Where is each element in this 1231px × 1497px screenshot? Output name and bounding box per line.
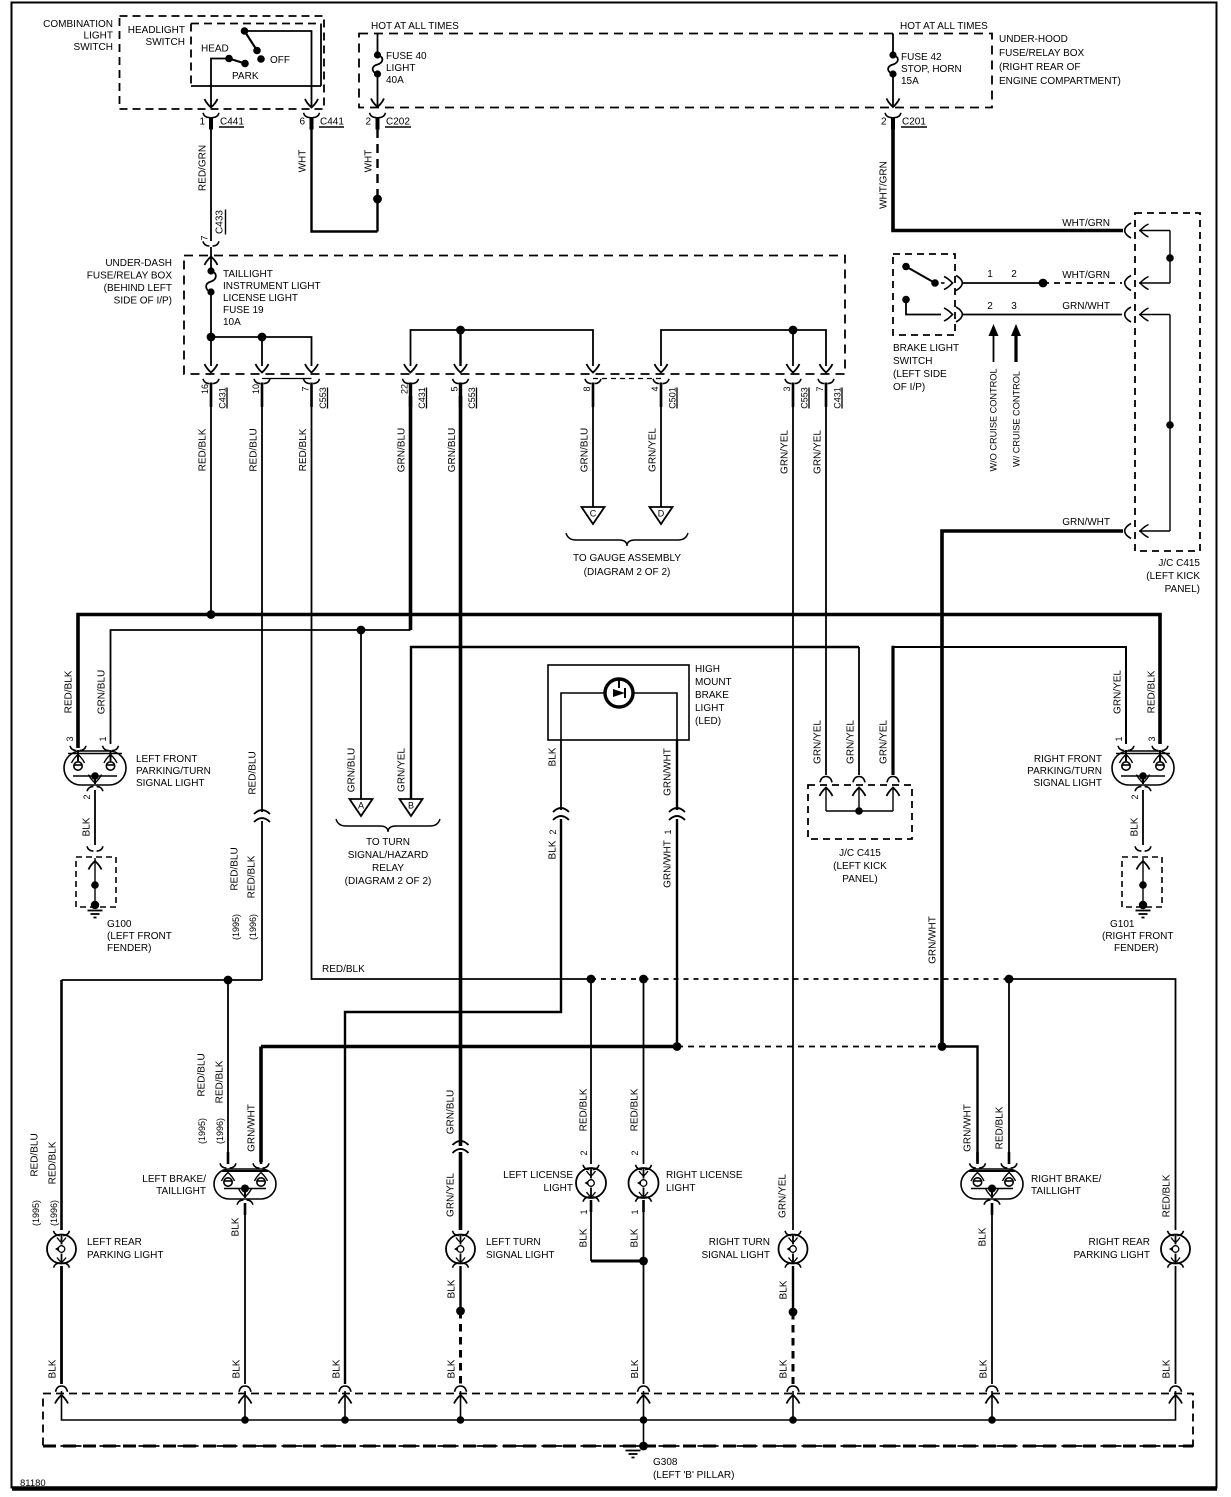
wire BLK right license (643, 1200, 645, 1384)
svg-text:BLK: BLK (630, 1359, 641, 1378)
svg-text:(1996): (1996) (248, 914, 258, 940)
svg-text:PARKING LIGHT: PARKING LIGHT (1074, 1250, 1151, 1261)
right front light pin2 (1135, 786, 1151, 791)
junction dot left turn BLK (456, 1307, 465, 1316)
svg-text:WHT/GRN: WHT/GRN (1062, 218, 1110, 229)
wire GRN/YEL left turn (459, 1152, 463, 1230)
svg-text:(LEFT FRONT: (LEFT FRONT (107, 931, 172, 942)
wire GRN/BLU pin22 down (409, 396, 413, 630)
svg-text:FUSE 40: FUSE 40 (386, 51, 427, 62)
left turn signal light lamp (446, 1235, 475, 1264)
wire RED/BLK dashed 1 (591, 978, 644, 980)
connector C433 pin 7 (203, 241, 219, 246)
right taillight pin2 conn (984, 1200, 1000, 1205)
svg-text:3: 3 (1011, 301, 1017, 312)
svg-text:TO GAUGE ASSEMBLY: TO GAUGE ASSEMBLY (573, 553, 681, 564)
svg-text:BLK: BLK (1162, 1359, 1173, 1378)
wire fuse19 distribution line 1 (211, 337, 312, 366)
svg-text:FENDER): FENDER) (107, 943, 151, 954)
ground G308 symbol (639, 1442, 648, 1451)
svg-text:WHT/GRN: WHT/GRN (1062, 270, 1110, 281)
svg-text:GRN/BLU: GRN/BLU (347, 748, 358, 792)
triangle B (400, 799, 423, 816)
left turn conn (453, 1231, 469, 1236)
svg-text:HEADLIGHT: HEADLIGHT (128, 25, 185, 36)
svg-text:BLK: BLK (48, 1359, 59, 1378)
svg-text:PARKING/TURN: PARKING/TURN (1027, 766, 1102, 777)
svg-text:2: 2 (881, 117, 887, 128)
connector C441 pin 6 (304, 113, 320, 118)
svg-text:W/O CRUISE CONTROL: W/O CRUISE CONTROL (989, 368, 999, 471)
svg-text:SIGNAL LIGHT: SIGNAL LIGHT (701, 1250, 770, 1261)
svg-text:FUSE 42: FUSE 42 (901, 52, 942, 63)
junction dot line3 (789, 326, 798, 335)
svg-text:GRN/YEL: GRN/YEL (813, 430, 824, 474)
svg-text:RIGHT BRAKE/: RIGHT BRAKE/ (1031, 1174, 1102, 1185)
G101 connector (1135, 846, 1151, 851)
svg-text:LEFT BRAKE/: LEFT BRAKE/ (142, 1174, 206, 1185)
J/C entry 1 WHT/GRN (1125, 223, 1131, 238)
wire GRN/WHT from HMBL (676, 740, 678, 810)
bus3 GRN/YEL right (891, 646, 894, 775)
svg-text:PARK: PARK (232, 71, 259, 82)
svg-text:G101: G101 (1110, 919, 1135, 930)
J/C lower internal bar (826, 810, 893, 812)
left turn bottom conn (453, 1263, 469, 1268)
svg-text:1: 1 (199, 117, 205, 128)
ground G100 (88, 910, 103, 912)
svg-text:GRN/YEL: GRN/YEL (778, 1174, 789, 1218)
G100 internal (94, 858, 96, 905)
wire GRN/BLU pin8 to triangle C (592, 396, 594, 507)
svg-text:SIGNAL LIGHT: SIGNAL LIGHT (1033, 778, 1102, 789)
svg-text:COMBINATION: COMBINATION (43, 19, 113, 30)
svg-text:BLK: BLK (447, 1279, 458, 1298)
wire bus3 left end to J/C (858, 647, 860, 775)
svg-text:GRN/YEL: GRN/YEL (446, 1173, 457, 1217)
right license pin2 conn (636, 1165, 652, 1170)
svg-text:BLK: BLK (232, 1359, 243, 1378)
headlight switch inner box (191, 23, 321, 25)
svg-text:J/C C415: J/C C415 (839, 848, 881, 859)
switch contact upper (902, 263, 910, 271)
svg-text:RED/BLK: RED/BLK (1162, 1174, 1173, 1217)
wire drop pin16 (210, 337, 212, 366)
svg-text:1: 1 (579, 1209, 589, 1214)
svg-text:10: 10 (251, 384, 261, 394)
svg-text:WHT/GRN: WHT/GRN (879, 161, 890, 209)
svg-text:GRN/YEL: GRN/YEL (397, 748, 408, 792)
svg-text:GRN/WHT: GRN/WHT (663, 840, 674, 888)
svg-text:1: 1 (1114, 736, 1124, 741)
wire brake sw pin1-2 WHT/GRN (962, 282, 1044, 284)
svg-text:UNDER-HOOD: UNDER-HOOD (999, 34, 1068, 45)
svg-text:(RIGHT FRONT: (RIGHT FRONT (1102, 931, 1173, 942)
wire GRN/BLU to triangle A (360, 630, 362, 799)
svg-text:TAILLIGHT: TAILLIGHT (156, 1186, 206, 1197)
arrow pin8 (587, 364, 600, 373)
svg-text:C431: C431 (833, 387, 843, 409)
brake light switch dashed box (893, 254, 955, 335)
left front parking/turn signal light oval (64, 751, 126, 785)
svg-text:RELAY: RELAY (372, 863, 404, 874)
fuse 42 STOP HORN 15A (892, 34, 894, 56)
RED/BLU break connector (254, 810, 270, 822)
svg-text:SIDE OF I/P): SIDE OF I/P) (114, 296, 172, 307)
arrow pin4 (655, 364, 668, 373)
right front parking/turn signal light oval (1112, 751, 1174, 785)
svg-text:2: 2 (1130, 794, 1140, 799)
bus2 GRN/BLU horizontal (111, 630, 411, 744)
svg-text:RED/BLU: RED/BLU (249, 428, 260, 471)
svg-text:C553: C553 (467, 387, 477, 409)
wire BLK left license (590, 1200, 592, 1261)
svg-text:GRN/WHT: GRN/WHT (247, 1104, 258, 1152)
svg-text:HEAD: HEAD (201, 44, 229, 55)
svg-text:RED/BLK: RED/BLK (215, 1060, 226, 1103)
wire BLK left taillight down (244, 1215, 246, 1384)
junction dot GRN/WHT right (938, 1042, 947, 1051)
svg-text:(LED): (LED) (695, 716, 721, 727)
bus3 GRN/YEL left (411, 647, 859, 799)
J/C entry 4 GRN/WHT (1125, 524, 1131, 539)
svg-text:C441: C441 (320, 117, 344, 128)
ground bus junction dots (241, 1416, 249, 1424)
svg-text:(1995): (1995) (197, 1118, 207, 1144)
svg-text:81180: 81180 (20, 1478, 46, 1489)
junction dot fuse19 output (207, 333, 216, 342)
svg-text:BLK: BLK (979, 1359, 990, 1378)
wire brake sw pin2-3 GRN/WHT (962, 314, 1123, 316)
wire BLK left rear (60, 1266, 63, 1384)
ground bus wire (62, 1391, 1176, 1420)
svg-text:RED/BLK: RED/BLK (198, 428, 209, 471)
wire RED/BLK right license (643, 979, 645, 1164)
wire headlight switch pin6 (245, 31, 312, 106)
combination light switch outer dashed box (120, 16, 325, 109)
wire RED/BLK dashed 2 (644, 978, 1010, 980)
switch contact lower (902, 296, 910, 304)
right turn conn (785, 1231, 801, 1236)
left taillight pin2 conn (237, 1200, 253, 1205)
left turn break connector (453, 1141, 469, 1153)
junction dot bus1-pin16 (207, 610, 216, 619)
wire RED/BLK left license (590, 979, 592, 1164)
wire GRN/YEL pin5 down (459, 396, 463, 1146)
connector pin 16 C431 (203, 379, 219, 384)
left front light pin1 (103, 746, 119, 751)
LED lamp circle (605, 679, 633, 707)
J/C lower entry right (887, 777, 899, 783)
svg-text:PANEL): PANEL) (1165, 584, 1200, 595)
svg-text:RED/BLK: RED/BLK (48, 1141, 59, 1184)
svg-text:SIGNAL LIGHT: SIGNAL LIGHT (486, 1250, 555, 1261)
svg-text:(DIAGRAM 2 OF 2): (DIAGRAM 2 OF 2) (345, 876, 432, 887)
wire BLK right rear (1175, 1266, 1177, 1384)
svg-text:2: 2 (548, 829, 558, 834)
wire RED/BLK to right taillight (1008, 979, 1010, 1162)
wire RED/BLU to left taillight (227, 980, 229, 1162)
svg-text:GRN/YEL: GRN/YEL (1113, 670, 1124, 714)
svg-text:BLK: BLK (630, 1228, 641, 1247)
svg-text:RED/BLU: RED/BLU (30, 1133, 41, 1176)
wire GRN/YEL pin3 down to right turn (792, 396, 794, 1230)
wire WHT pin6 C441 (312, 129, 378, 232)
svg-text:D: D (658, 509, 665, 519)
G100 dashed box (76, 857, 116, 907)
svg-text:BLK: BLK (548, 840, 559, 859)
wire WHT from C202 (dashed) (376, 129, 378, 199)
svg-text:LIGHT: LIGHT (695, 703, 724, 714)
junction dot left license (587, 975, 596, 984)
HMBL BLK break connector (553, 808, 569, 820)
connector bridge pins 10-7 (262, 378, 312, 380)
svg-text:C202: C202 (386, 117, 410, 128)
svg-text:1: 1 (98, 736, 108, 741)
triangle A (350, 799, 373, 816)
junction dot lineA (224, 976, 233, 985)
svg-text:BLK: BLK (332, 1359, 343, 1378)
svg-text:W/ CRUISE CONTROL: W/ CRUISE CONTROL (1012, 371, 1022, 467)
svg-text:7: 7 (200, 235, 210, 240)
svg-text:(1996): (1996) (49, 1200, 59, 1226)
ground bus thick bottom (43, 1445, 1193, 1448)
svg-text:G100: G100 (107, 919, 132, 930)
wire WHT splice to corner (376, 199, 378, 232)
svg-text:GRN/YEL: GRN/YEL (846, 720, 857, 764)
svg-text:TAILLIGHT: TAILLIGHT (1031, 1186, 1081, 1197)
svg-text:SWITCH: SWITCH (893, 356, 932, 367)
svg-text:LIGHT: LIGHT (666, 1183, 695, 1194)
svg-text:C501: C501 (668, 387, 678, 409)
G100 connector (87, 846, 103, 851)
wire BLK right front to G101 (1142, 790, 1144, 845)
svg-text:(LEFT 'B' PILLAR): (LEFT 'B' PILLAR) (653, 1470, 734, 1481)
svg-text:GRN/YEL: GRN/YEL (813, 720, 824, 764)
svg-text:15A: 15A (901, 76, 919, 87)
fuse 19 TAILLIGHT 10A (207, 267, 214, 274)
wire BLK from HMBL (560, 740, 562, 810)
svg-text:GRN/YEL: GRN/YEL (648, 428, 659, 472)
ground connectors row (56, 1386, 68, 1392)
wire GRN/WHT thick bottom (261, 1045, 677, 1049)
svg-text:TO TURN: TO TURN (366, 837, 410, 848)
svg-text:1: 1 (987, 269, 993, 280)
svg-text:(RIGHT REAR OF: (RIGHT REAR OF (999, 62, 1080, 73)
svg-text:4: 4 (650, 386, 660, 391)
svg-text:LEFT LICENSE: LEFT LICENSE (503, 1170, 573, 1181)
svg-text:BRAKE LIGHT: BRAKE LIGHT (893, 343, 959, 354)
svg-text:7: 7 (301, 386, 311, 391)
svg-text:2: 2 (630, 1150, 640, 1155)
svg-text:SWITCH: SWITCH (74, 42, 113, 53)
svg-text:G308: G308 (653, 1457, 678, 1468)
connector pin 3 C553 (785, 379, 801, 384)
wire left rear parking feed (60, 980, 63, 1230)
right rear conn (1168, 1231, 1184, 1236)
svg-text:MOUNT: MOUNT (695, 677, 732, 688)
J/C entry 3 GRN/WHT (1125, 307, 1131, 322)
svg-text:LIGHT: LIGHT (84, 31, 113, 42)
junction dot license BLK (639, 1257, 648, 1266)
ground bus dashed box (43, 1394, 1193, 1447)
connector C202 pin 2 (370, 113, 386, 118)
left front light pin3 (70, 746, 86, 751)
svg-text:C431: C431 (417, 387, 427, 409)
svg-text:RIGHT TURN: RIGHT TURN (709, 1237, 770, 1248)
svg-text:C553: C553 (318, 387, 328, 409)
wire GRN/WHT dashed section (677, 1046, 942, 1048)
svg-text:STOP, HORN: STOP, HORN (901, 64, 962, 75)
right front light pin1 (1118, 746, 1134, 751)
wire GRN/YEL pin7b down to J/C (825, 396, 827, 775)
svg-text:6: 6 (299, 117, 305, 128)
fuse 40 LIGHT 40A (377, 34, 379, 56)
svg-text:RIGHT FRONT: RIGHT FRONT (1034, 754, 1102, 765)
svg-text:1: 1 (663, 829, 673, 834)
brace gauge assembly (566, 533, 688, 546)
wire GRN/WHT J/C to column (942, 531, 1123, 1044)
wire GRN/YEL pin4 to triangle D (660, 396, 662, 507)
switch lever OFF position (241, 27, 249, 35)
wire RED/BLK pin7 down (312, 396, 592, 979)
svg-text:RED/BLK: RED/BLK (579, 1088, 590, 1131)
connector C201 pin 2 (885, 113, 901, 118)
svg-text:C201: C201 (902, 117, 926, 128)
svg-text:GRN/YEL: GRN/YEL (780, 430, 791, 474)
svg-text:OF I/P): OF I/P) (893, 382, 925, 393)
svg-text:INSTRUMENT LIGHT: INSTRUMENT LIGHT (223, 281, 321, 292)
under-dash fuse/relay dashed box (184, 256, 845, 375)
svg-text:RED/BLK: RED/BLK (247, 855, 258, 898)
svg-text:TAILLIGHT: TAILLIGHT (223, 269, 273, 280)
right brake/taillight oval (961, 1169, 1023, 1199)
left brake/taillight oval (214, 1169, 276, 1199)
svg-text:RED/BLK: RED/BLK (1147, 670, 1158, 713)
svg-text:BRAKE: BRAKE (695, 690, 729, 701)
svg-text:GRN/BLU: GRN/BLU (397, 428, 408, 472)
left front light pin2 (87, 786, 103, 791)
arrow pin7 C431 (820, 364, 833, 373)
wire RED/BLU below break (261, 821, 263, 980)
ground bus entry arrows (55, 1395, 68, 1404)
svg-text:HIGH: HIGH (695, 664, 720, 675)
svg-text:2: 2 (987, 301, 993, 312)
svg-text:3: 3 (782, 386, 792, 391)
right rear parking light lamp (1161, 1235, 1190, 1264)
svg-text:J/C C415: J/C C415 (1158, 558, 1200, 569)
G101 internal (1142, 858, 1144, 905)
svg-text:BLK: BLK (779, 1359, 790, 1378)
svg-text:3: 3 (65, 736, 75, 741)
under-hood fuse/relay dashed box (359, 34, 992, 108)
junction dot right turn BLK (789, 1308, 798, 1317)
svg-text:B: B (408, 801, 414, 811)
junction dot right taillight RED/BLK (1005, 975, 1014, 984)
svg-text:LIGHT: LIGHT (544, 1183, 573, 1194)
wire GRN/WHT HMBL down (676, 819, 678, 1047)
svg-text:C433: C433 (215, 210, 226, 234)
wire C433 into box (210, 247, 212, 271)
line A RED/BLU (62, 979, 263, 981)
high mount brake light box (548, 665, 689, 740)
junction dot right license (639, 975, 648, 984)
HMBL GRNWHT break connector (669, 808, 685, 820)
svg-text:UNDER-DASH: UNDER-DASH (105, 258, 172, 269)
svg-text:40A: 40A (386, 75, 404, 86)
connector pin 7 C553 (304, 379, 320, 384)
svg-text:GRN/BLU: GRN/BLU (580, 428, 591, 472)
J/C internal wire lower (1169, 315, 1171, 532)
wire GRN/WHT to left taillight (259, 1047, 263, 1163)
right rear bottom conn (1168, 1263, 1184, 1268)
svg-text:(LEFT KICK: (LEFT KICK (833, 861, 887, 872)
J/C entry 2 WHT/GRN (1125, 276, 1131, 291)
svg-text:RIGHT REAR: RIGHT REAR (1089, 1237, 1151, 1248)
wire BLK right turn (792, 1266, 794, 1312)
svg-text:10A: 10A (223, 317, 241, 328)
left taillight pin conn R (253, 1163, 269, 1168)
svg-text:RED/BLU: RED/BLU (197, 1053, 208, 1096)
wire distribution line 3 (661, 330, 826, 366)
right turn bottom conn (785, 1263, 801, 1268)
connector pin 7b C431 (818, 379, 834, 384)
svg-text:C431: C431 (218, 387, 228, 409)
svg-text:(LEFT KICK: (LEFT KICK (1146, 571, 1200, 582)
triangle D (650, 507, 673, 524)
right front light pin3 (1152, 746, 1168, 751)
wire BLK right taillight down (991, 1215, 993, 1384)
svg-text:LICENSE LIGHT: LICENSE LIGHT (223, 293, 298, 304)
J/C lower entry left (820, 777, 832, 783)
svg-text:FENDER): FENDER) (1114, 943, 1158, 954)
svg-text:OFF: OFF (270, 55, 290, 66)
junction dot GRN/WHT-HMBL (673, 1042, 682, 1051)
svg-text:HOT AT ALL TIMES: HOT AT ALL TIMES (371, 21, 459, 32)
svg-text:RED/BLK: RED/BLK (322, 964, 365, 975)
ground G101 (1136, 910, 1151, 912)
svg-text:BLK: BLK (579, 1228, 590, 1247)
svg-text:(1995): (1995) (31, 1200, 41, 1226)
svg-text:2: 2 (365, 117, 371, 128)
left license pin2 conn (583, 1165, 599, 1170)
junction dot line2 (456, 326, 465, 335)
svg-text:5: 5 (450, 386, 460, 391)
svg-text:C: C (590, 509, 597, 519)
svg-text:GRN/WHT: GRN/WHT (663, 748, 674, 796)
switch pole lower exit (944, 308, 953, 321)
svg-text:C441: C441 (220, 117, 244, 128)
svg-text:GRN/YEL: GRN/YEL (879, 720, 890, 764)
svg-text:GRN/BLU: GRN/BLU (97, 670, 108, 714)
svg-text:SIGNAL/HAZARD: SIGNAL/HAZARD (348, 850, 429, 861)
svg-text:GRN/BLU: GRN/BLU (446, 1090, 457, 1134)
wire RED/BLK solid right (1009, 979, 1176, 1230)
J/C lower entry mid (853, 777, 865, 783)
wire BLK left turn (459, 1266, 461, 1311)
connector pin 5 C553 (453, 379, 469, 384)
svg-text:LEFT REAR: LEFT REAR (87, 1237, 142, 1248)
wire RED/BLU pin10 down (261, 396, 263, 812)
svg-text:PARKING/TURN: PARKING/TURN (136, 766, 211, 777)
J/C internal wire upper (1169, 231, 1171, 284)
svg-text:(1996): (1996) (215, 1118, 225, 1144)
svg-text:FUSE/RELAY BOX: FUSE/RELAY BOX (999, 48, 1085, 59)
J/C C415 lower dashed box (808, 785, 912, 839)
left license pin1 conn (583, 1197, 599, 1202)
wire BLK HMBL to ground col (345, 819, 561, 1384)
svg-text:RED/BLU: RED/BLU (230, 847, 241, 890)
